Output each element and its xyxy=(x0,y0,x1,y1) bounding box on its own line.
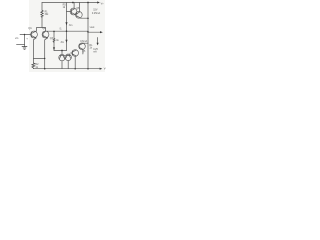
wire right column xyxy=(87,3,89,69)
wire bias column xyxy=(66,3,68,51)
svg-text:0.6mA: 0.6mA xyxy=(80,40,87,43)
figure panel xyxy=(29,0,105,72)
wire Q6 emitter xyxy=(67,61,69,69)
wire Q7 emitter column xyxy=(74,56,76,68)
svg-text:V-: V- xyxy=(104,67,106,70)
wire Q9 collector xyxy=(79,3,81,13)
wire sense column xyxy=(53,32,55,39)
V- rail arrow xyxy=(100,68,103,70)
svg-text:15V: 15V xyxy=(93,8,98,11)
resistor R2 xyxy=(32,63,35,68)
wire Q4 emitter xyxy=(82,50,84,55)
output arrow xyxy=(100,31,103,33)
wire diff output bus xyxy=(46,30,89,32)
wire input to Q1 base xyxy=(20,34,31,36)
wire R1 bottom lead xyxy=(41,17,43,27)
svg-text:Q2: Q2 xyxy=(42,26,46,30)
wire R2 to rail xyxy=(32,67,34,70)
wire Q7 base xyxy=(71,52,73,54)
wire source column xyxy=(24,35,26,47)
transistor Q8 xyxy=(70,8,77,15)
svg-text:vout: vout xyxy=(90,26,95,29)
transistor Q1 xyxy=(31,31,38,38)
wire mirror link xyxy=(54,50,67,52)
paper background xyxy=(0,0,120,72)
wire R1 top lead xyxy=(41,3,43,11)
svg-text:.3m: .3m xyxy=(68,24,72,27)
junction dots xyxy=(24,2,89,70)
transistor Q5 xyxy=(59,54,65,60)
svg-text:mA: mA xyxy=(93,50,97,53)
ground xyxy=(17,44,28,49)
V+ rail arrow xyxy=(97,1,100,3)
transistor Q2 xyxy=(42,31,49,38)
labels xyxy=(15,2,106,70)
current arrow I3 xyxy=(53,47,55,50)
resistor R3 xyxy=(53,38,55,42)
wire V- bottom rail xyxy=(33,68,99,70)
wire sense lower xyxy=(53,42,55,50)
resistor R1 xyxy=(41,10,43,17)
wire Q5 collector tap xyxy=(61,51,63,55)
transistor Q7 xyxy=(72,50,79,57)
current arrow I2 xyxy=(65,40,67,43)
wire Q2 emitter column xyxy=(45,38,48,69)
svg-text:Q1: Q1 xyxy=(28,26,32,30)
svg-text:0.25mA: 0.25mA xyxy=(92,12,101,15)
wire output stub xyxy=(88,31,100,33)
wire base tee xyxy=(37,28,46,32)
current arrow I1 xyxy=(65,22,67,25)
svg-text:.3m: .3m xyxy=(60,41,64,44)
transistor Q4 xyxy=(79,43,86,50)
transistor Q9 xyxy=(75,11,82,18)
wire Q4 collector link xyxy=(83,42,88,44)
transistor Q6 xyxy=(65,54,71,60)
wire Q5 emitter xyxy=(61,61,63,69)
wire Q8 collector xyxy=(73,3,75,9)
wire Q8 base xyxy=(67,11,72,13)
svg-text:vin: vin xyxy=(15,36,19,40)
wire Q1 emitter column xyxy=(33,38,36,63)
wire V+ top rail xyxy=(42,2,97,4)
load arrow xyxy=(97,38,99,43)
wire tail link xyxy=(33,58,44,60)
wire Q9 emitter bus xyxy=(81,17,88,19)
